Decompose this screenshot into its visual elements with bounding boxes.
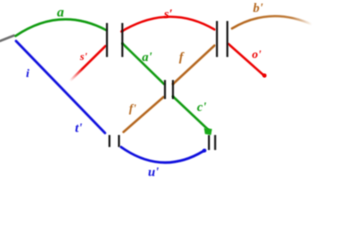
node end blob of blue arc at J5 xyxy=(203,149,207,153)
wire blue arc u' (J4 right bar to J5 left bar, sagging) xyxy=(121,147,204,163)
wire brown arc b' (J2 right bar, fading right end) xyxy=(232,16,312,28)
svg-text:s': s' xyxy=(79,51,87,63)
svg-text:c': c' xyxy=(197,99,207,114)
wire green diagonal c' (M right bar to J5 left bar) xyxy=(173,97,209,131)
junction M bars xyxy=(164,80,166,99)
junction J1 bars xyxy=(106,23,108,57)
svg-text:a: a xyxy=(57,6,64,21)
svg-text:a': a' xyxy=(142,49,153,64)
svg-text:u': u' xyxy=(148,164,159,179)
svg-text:i: i xyxy=(26,66,30,80)
wire red arc s (J1 right bar to J2 left bar) xyxy=(122,17,215,32)
wire red diagonal s' (J1 left bar down-left, fading end) xyxy=(70,46,106,81)
wire green diagonal a' (J1 right bar to M left bar) xyxy=(123,44,165,85)
node end blob of red diagonal o' xyxy=(263,74,267,78)
wire blue diagonal i (left edge to J4 left bar) xyxy=(16,41,105,133)
junction J5 bars xyxy=(208,135,210,150)
wire green arc a (left end to junction J1 left bar) xyxy=(16,19,107,36)
wire red diagonal o' (J2 right bar down-right to node end) xyxy=(229,44,265,76)
svg-text:f: f xyxy=(179,49,185,64)
wire brown diagonal f' (M left bar to J4 right bar) xyxy=(124,97,164,132)
junction J4 bars xyxy=(109,135,111,147)
svg-text:t': t' xyxy=(75,120,83,135)
wire brown diagonal f (M right bar to J2 left bar) xyxy=(173,46,215,85)
svg-text:b': b' xyxy=(253,0,264,15)
svg-text:f': f' xyxy=(129,101,137,115)
junction J2 bars xyxy=(216,21,218,57)
wire fading tail left edge (gray continuation of green arc) xyxy=(0,36,14,42)
node end blob of green diagonal c' at J5 xyxy=(204,128,212,135)
svg-text:s′: s′ xyxy=(163,6,173,21)
svg-text:o': o' xyxy=(252,47,262,61)
